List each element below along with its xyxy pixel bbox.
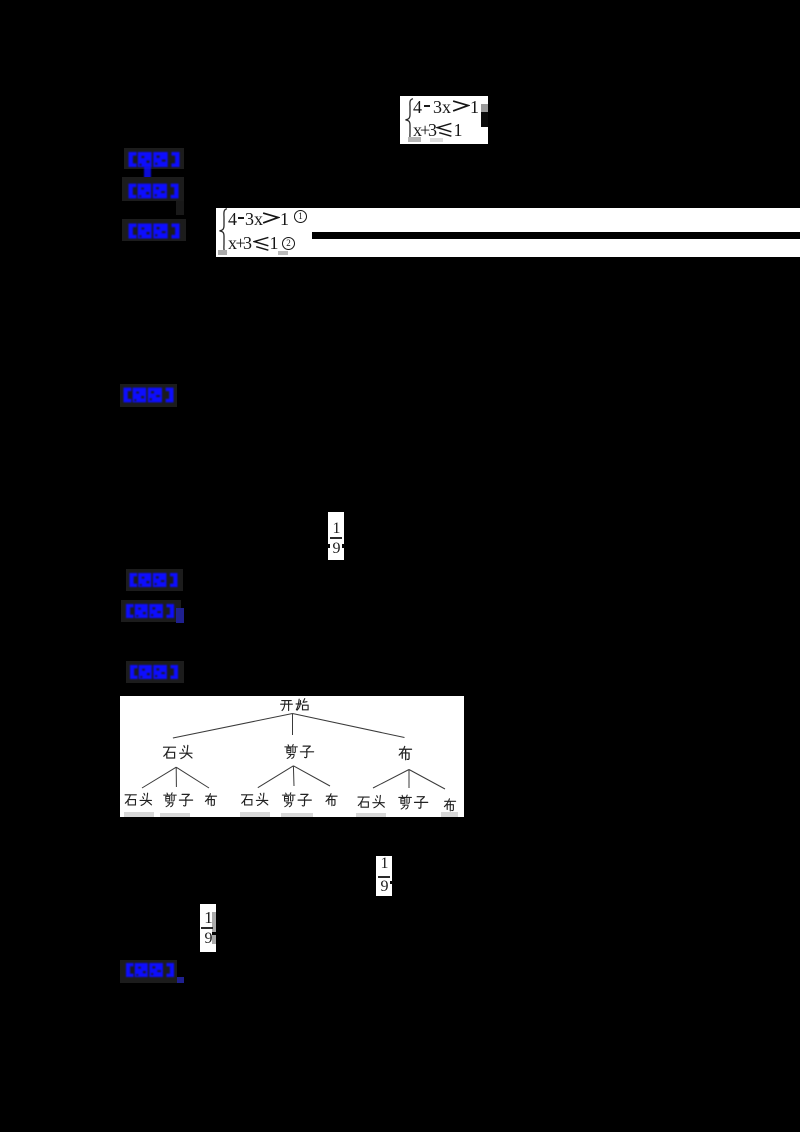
fraction box E [376, 856, 392, 896]
leaves group2 [242, 795, 253, 805]
tree diagram box [120, 696, 464, 817]
tree diagram [120, 696, 464, 817]
equation A brace [404, 98, 414, 142]
fraction box F [200, 904, 216, 952]
label 解答 2 envelope [126, 661, 184, 683]
equation box A black blob [481, 112, 488, 127]
bottom smudges [124, 812, 458, 817]
equation box A [400, 96, 488, 144]
equation box A gray nib [481, 104, 488, 112]
equation B brace [218, 208, 228, 254]
equation B line 1: 4 - 3x > 1 (1) [228, 209, 237, 230]
navy square after 分析 2 [176, 608, 184, 623]
leaves group3 [358, 797, 369, 807]
label 考点 1 envelope [124, 148, 184, 169]
level1 布 [399, 746, 411, 759]
level1 石头 [164, 747, 176, 758]
fraction C side nibs [327, 544, 330, 548]
gray tail right of label 分析 1 [176, 200, 184, 215]
hidden defs: glyphs and blue label blob [0, 0, 1, 1]
label 点评 2 envelope [120, 960, 177, 983]
equation strip B [216, 208, 800, 257]
label 点评 2 [124, 962, 176, 978]
equation B line 2: x + 3 <= 1 (2) [228, 233, 237, 254]
label 解答 1 [128, 222, 180, 240]
label 分析 2 [124, 603, 176, 619]
开始 [281, 701, 293, 711]
label 分析 1 envelope [122, 177, 184, 201]
equation A line 2: x + 3 <= 1 [413, 120, 422, 141]
strip B black bar [312, 232, 800, 239]
branch lines level 1 [142, 714, 445, 790]
blue bridge under label 考点 1 [144, 166, 151, 184]
fraction box C [328, 512, 344, 560]
level1 剪子 [285, 744, 298, 758]
label 分析 2 envelope [121, 600, 181, 622]
label 考点 1 [128, 151, 180, 168]
strip B bottom smudges [218, 250, 227, 255]
label 点评 1 [123, 386, 174, 404]
label 考点 2 [128, 572, 179, 588]
label 考点 2 envelope [126, 569, 183, 591]
label 解答 2 [128, 664, 180, 680]
fraction F gray column [212, 912, 216, 944]
label 分析 1 [128, 182, 179, 200]
fraction F right nib [212, 932, 216, 935]
navy square after 点评 2 [177, 977, 184, 983]
equation A line 1: 4 - 3x > 1 [413, 97, 483, 115]
label 点评 1 envelope [120, 384, 177, 407]
fraction E right nib [390, 881, 393, 884]
equation A bottom gray smudge [408, 137, 421, 142]
label 解答 1 envelope [122, 219, 186, 241]
leaves group1 [125, 795, 136, 805]
